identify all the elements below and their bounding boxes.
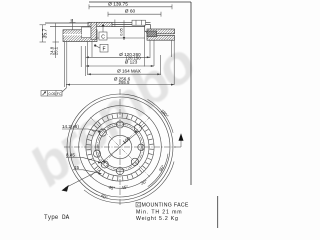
watermark brembo logo xyxy=(18,32,206,198)
centerline horizontal xyxy=(64,146,176,148)
small thickness dim on hat top xyxy=(70,19,76,30)
angle dim arcs xyxy=(84,99,174,203)
dim line D120.260/120.150 xyxy=(86,56,150,58)
svg-text:MOUNTING FACE: MOUNTING FACE xyxy=(142,203,189,209)
bottom right text block xyxy=(217,196,219,228)
top border line xyxy=(89,1,191,3)
bolt circle diameter dim (diagonal) xyxy=(103,131,138,163)
frame right border xyxy=(190,2,192,185)
svg-text:0.05: 0.05 xyxy=(119,28,123,35)
svg-text:15: 15 xyxy=(74,165,80,170)
left vertical dimension 1 xyxy=(40,25,47,42)
dim line D60 xyxy=(108,13,161,15)
bolt holes xyxy=(93,121,144,175)
angle labels xyxy=(100,193,108,201)
svg-text:35.7: 35.7 xyxy=(43,28,49,38)
svg-text:0.05: 0.05 xyxy=(49,92,56,96)
svg-text:FC: FC xyxy=(57,92,62,96)
svg-text:Type DA: Type DA xyxy=(44,214,70,221)
svg-text:F: F xyxy=(102,47,105,53)
datum C box xyxy=(95,24,145,40)
leader 14.2(x6) xyxy=(62,129,102,133)
svg-text:255.5: 255.5 xyxy=(119,80,131,85)
section: hat wall (hatched block) xyxy=(63,27,97,42)
svg-text:Ø 123: Ø 123 xyxy=(125,60,138,65)
svg-text:25.1: 25.1 xyxy=(54,46,59,55)
svg-text:Ø 164 MAX: Ø 164 MAX xyxy=(117,68,141,73)
svg-text:Ø 139.75: Ø 139.75 xyxy=(108,2,128,8)
svg-text:Min. TH 21 mm: Min. TH 21 mm xyxy=(136,209,182,215)
leader 8.45 xyxy=(66,157,102,163)
svg-text:14.2(x6): 14.2(x6) xyxy=(62,124,79,129)
section: mounting flange plate xyxy=(45,22,151,26)
svg-text:8.45: 8.45 xyxy=(66,152,75,157)
bore / extension verticals xyxy=(65,31,175,87)
bolt circle (dash-dot) xyxy=(97,124,143,170)
svg-text:C: C xyxy=(101,35,105,41)
dim line D164 MAX xyxy=(88,73,161,75)
rotation direction arrow xyxy=(174,133,184,147)
svg-text:Ø 60: Ø 60 xyxy=(125,8,136,14)
dim line D139.75 xyxy=(89,6,172,8)
left vertical dimension 2 xyxy=(53,24,60,59)
dim line D123 xyxy=(86,65,154,67)
vent vane ticks xyxy=(87,114,154,181)
svg-text:Weight 5.2 Kg: Weight 5.2 Kg xyxy=(136,216,179,222)
svg-text:C: C xyxy=(137,202,140,207)
runout FCF box bottom left xyxy=(41,84,66,96)
centerline vertical xyxy=(119,89,121,205)
section: neck / step down to band xyxy=(145,22,151,34)
leader 15 xyxy=(73,170,102,175)
centerline diagonal 45 xyxy=(90,117,150,177)
section: braking band (two hatched strips) xyxy=(147,29,175,40)
dim line D256.6/255.5 xyxy=(67,84,174,86)
front view circles xyxy=(67,94,173,200)
datum F box xyxy=(94,44,108,52)
section: hat neck column xyxy=(91,22,97,39)
small feature control frame on flange xyxy=(132,20,146,25)
section view arrow xyxy=(62,170,101,192)
